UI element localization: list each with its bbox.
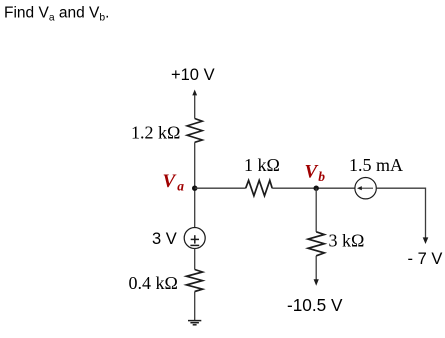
wire 3V source to 0.4k resistor [194, 249, 196, 270]
wire 3k resistor down to -10.5V arrow [314, 256, 319, 286]
resistor 0.4 kOhm (vertical zigzag) [187, 270, 203, 292]
resistor 1.2 kOhm (vertical zigzag) [187, 119, 202, 143]
ground symbol [188, 321, 201, 325]
arrow up to +10V supply [192, 90, 197, 119]
value label 0.4 kOhm [129, 273, 178, 293]
svg-text:Find Va and Vb.: Find Va and Vb. [4, 4, 109, 23]
node +10V label [171, 66, 215, 84]
value label 1 kOhm [244, 155, 280, 175]
node a junction dot [192, 186, 197, 191]
wire from current source to right corner and down to -7V arrow [376, 188, 428, 244]
node b label Vb [305, 162, 326, 185]
node a label Va [163, 171, 185, 194]
svg-text:- 7 V: - 7 V [408, 250, 443, 268]
wire 1k resistor to node b and on to current source [272, 187, 355, 189]
svg-text:-10.5 V: -10.5 V [287, 295, 343, 315]
svg-text:Va: Va [163, 171, 185, 194]
title text "Find Va and Vb." [4, 4, 109, 23]
svg-text:Vb: Vb [305, 162, 326, 185]
wire from resistor to node a [194, 142, 196, 227]
svg-text:1.5 mA: 1.5 mA [349, 155, 403, 175]
svg-text:0.4 kΩ: 0.4 kΩ [129, 273, 178, 293]
voltage source 3V (circle with plus minus) [184, 228, 205, 249]
svg-text:+10 V: +10 V [171, 66, 215, 84]
resistor 1 kOhm (horizontal zigzag) [246, 180, 273, 195]
svg-text:1.2 kΩ: 1.2 kΩ [131, 123, 180, 143]
resistor 3 kOhm (vertical zigzag) [308, 232, 324, 256]
node b junction dot [314, 186, 319, 191]
value label 3 kOhm [329, 231, 365, 251]
node -10.5V label [287, 295, 343, 315]
wire node b down to 3k resistor [315, 188, 317, 232]
node -7V label [408, 250, 443, 268]
value label 1.5 mA [349, 155, 403, 175]
wire 0.4k resistor to ground [194, 292, 196, 321]
wire node a to 1k resistor [195, 187, 246, 189]
current source 1.5 mA (circle with left arrow) [355, 178, 376, 199]
value label 3 V [152, 230, 177, 248]
svg-text:3 kΩ: 3 kΩ [329, 231, 365, 251]
value label 1.2 kOhm [131, 123, 180, 143]
svg-text:1 kΩ: 1 kΩ [244, 155, 280, 175]
svg-text:3 V: 3 V [152, 230, 177, 248]
